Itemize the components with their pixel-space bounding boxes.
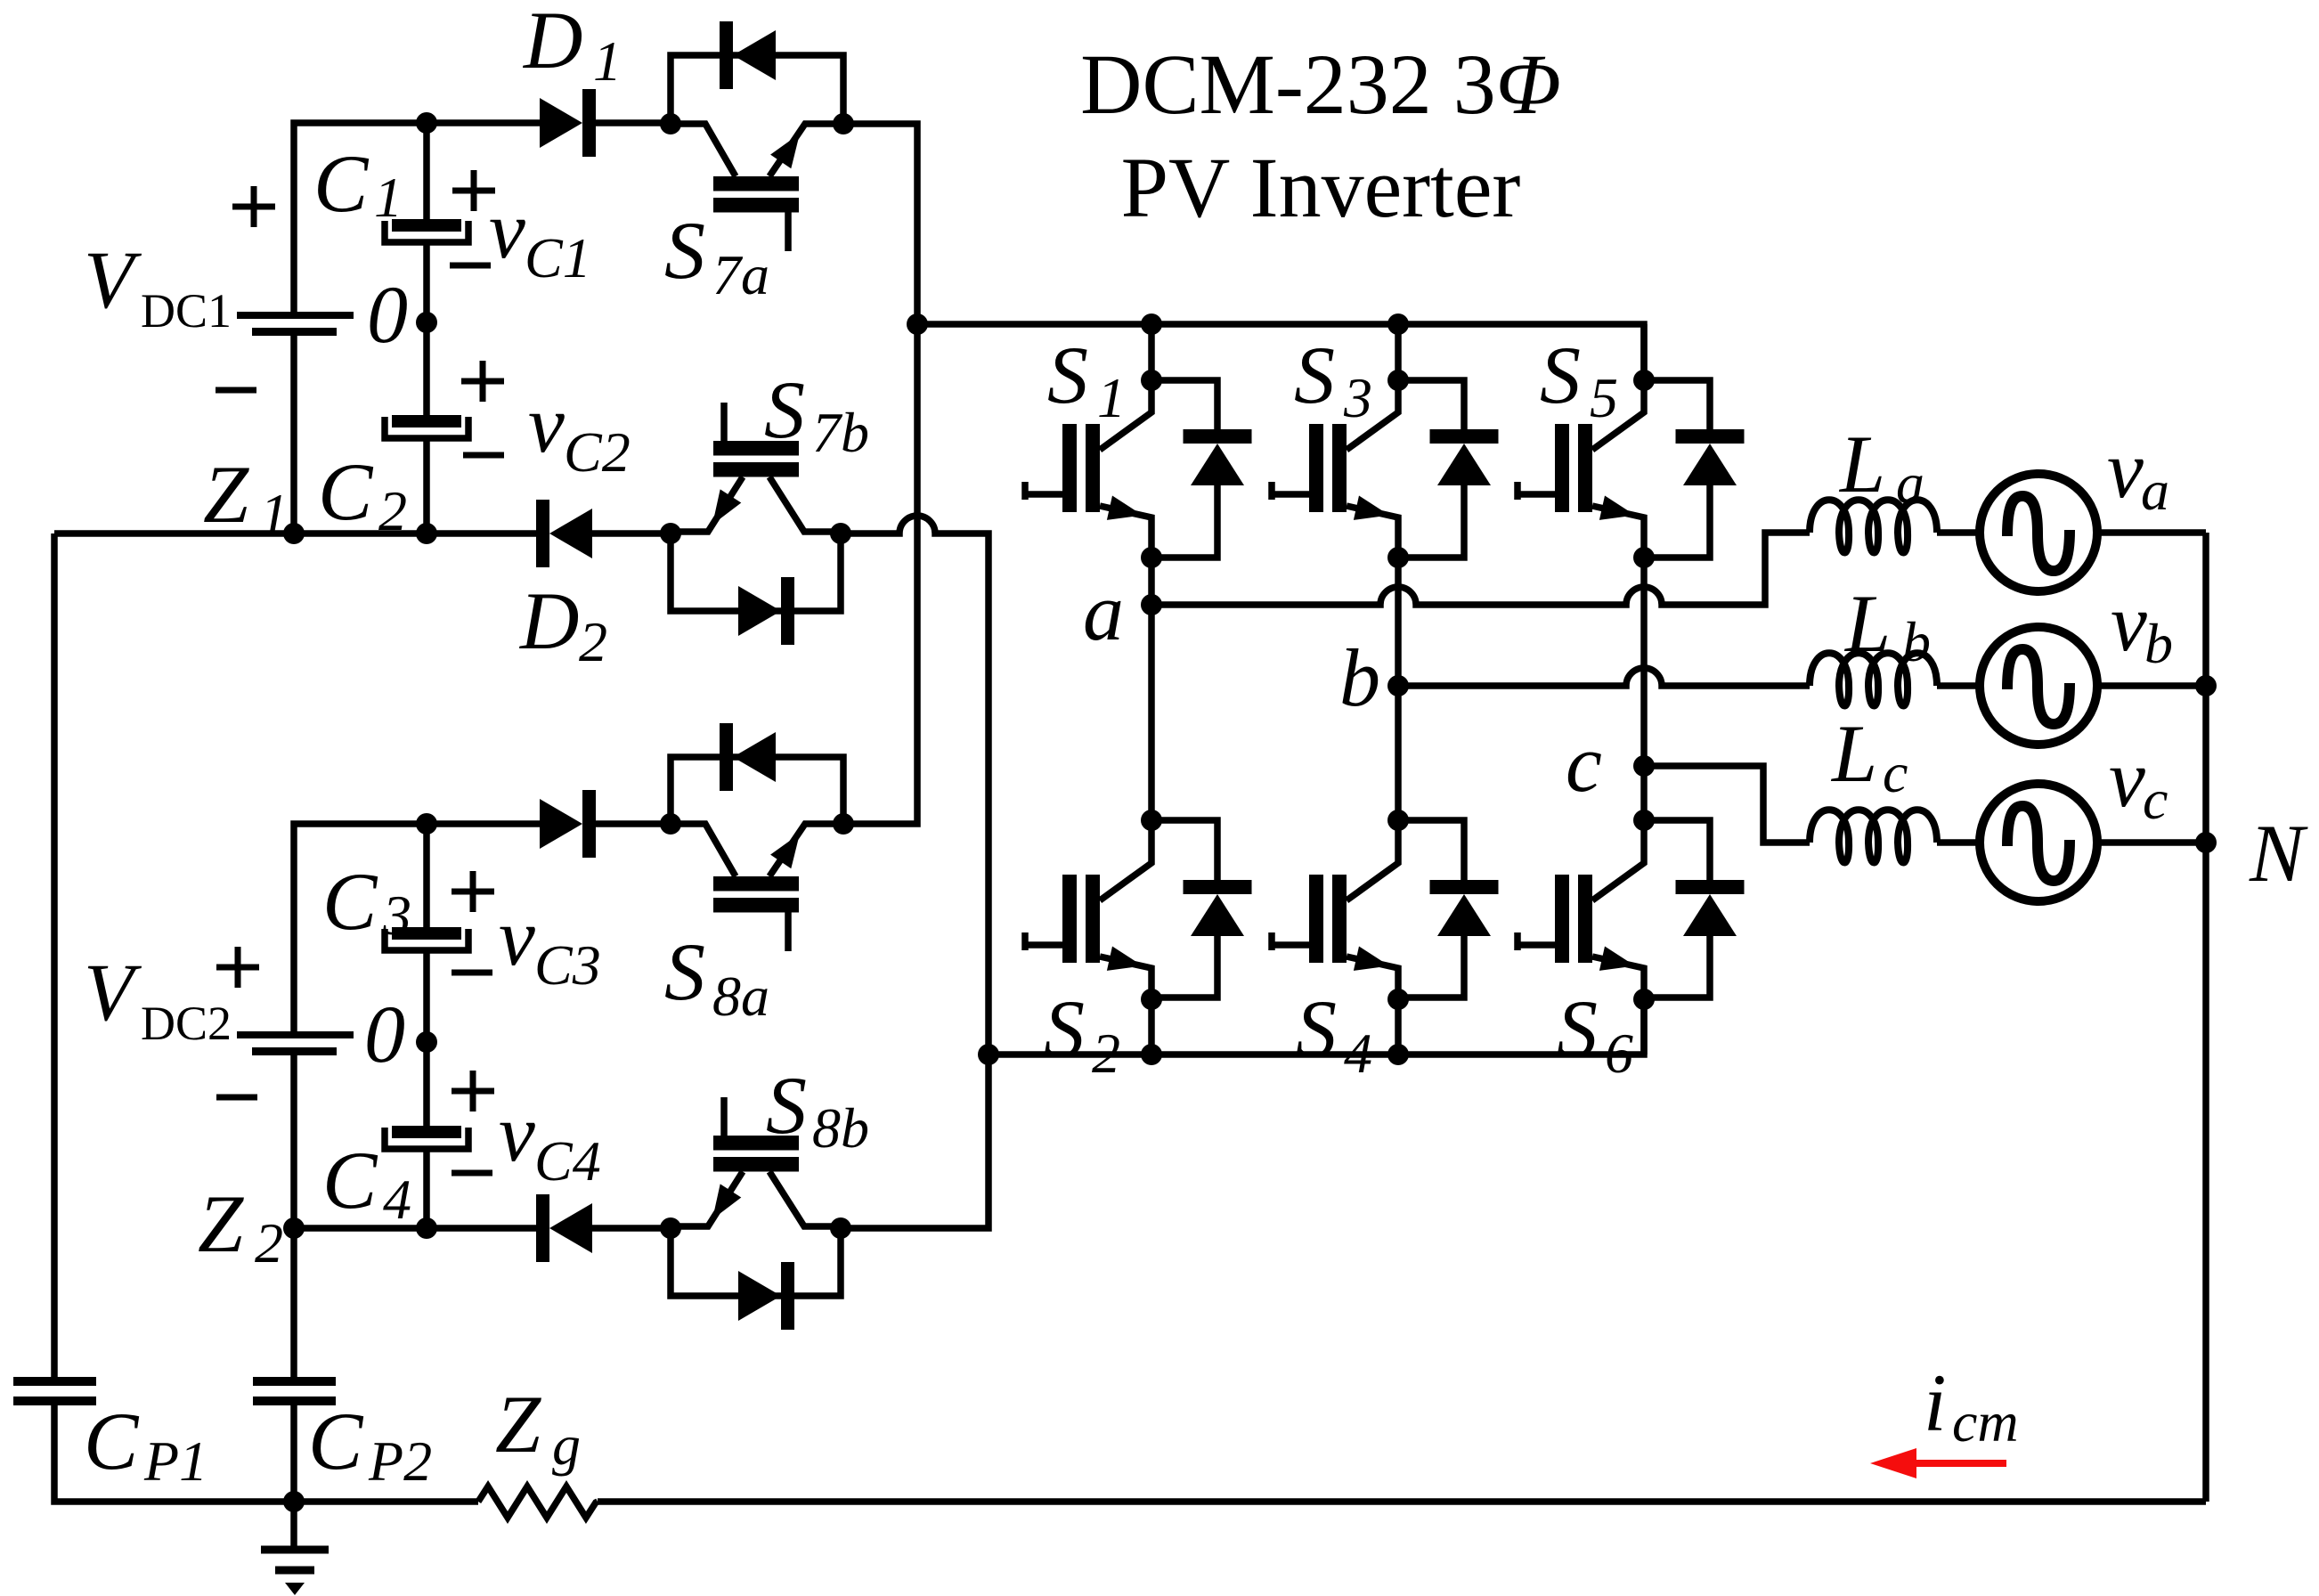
- igbt S3 gate bars: [1309, 424, 1323, 512]
- igbt S8b collector lead: [769, 1172, 841, 1227]
- svg-text:4: 4: [1344, 1022, 1372, 1085]
- ac source vb sine symbol: [2007, 649, 2070, 724]
- svg-text:c: c: [1566, 718, 1602, 809]
- node phase a dot: [1141, 594, 1162, 615]
- wire S7a emitter to vertical bus x1030: [843, 124, 917, 824]
- ac source vc circle: [1980, 784, 2097, 901]
- igbt S3 gate lead: [1272, 491, 1309, 498]
- svg-text:v: v: [499, 1087, 535, 1178]
- igbt S5 gate bars: [1555, 424, 1569, 512]
- terminal dots of S8b: [660, 1217, 681, 1239]
- wire leg a vertical segments: [1148, 324, 1155, 1054]
- wire C4 to Z2 line: [423, 1149, 430, 1228]
- label vC2 plus sign: [461, 379, 504, 385]
- igbt S2 collector lead: [1100, 820, 1151, 900]
- free-wheel diode of S1 branch wire: [1151, 380, 1217, 429]
- igbt S4 emitter arrow: [1354, 947, 1389, 971]
- node leg b S-top dot: [1387, 370, 1409, 391]
- igbt S1 gate lead: [1025, 491, 1062, 498]
- label vC4 plus sign: [452, 1088, 494, 1095]
- svg-text:a: a: [1083, 566, 1124, 657]
- label vC1 minus sign: [450, 263, 491, 269]
- svg-text:C1: C1: [525, 226, 591, 289]
- svg-text:D: D: [522, 0, 582, 85]
- wire phase b line with hop over leg c: [1398, 668, 1810, 686]
- svg-text:S: S: [1540, 330, 1581, 420]
- svg-text:0: 0: [364, 989, 405, 1079]
- node 0 upper dot: [416, 312, 437, 333]
- igbt S7b emitter lead: [671, 477, 743, 533]
- node ground junction dot: [283, 1491, 305, 1512]
- igbt S8b gate bars: [713, 1136, 799, 1151]
- node leg b S-bottom dot: [1387, 547, 1409, 568]
- label vC3 minus sign: [452, 970, 492, 976]
- wire C3 to lower node 0: [423, 950, 430, 1126]
- free-wheel diode of S1: [1184, 429, 1252, 444]
- node C4 bottom dot: [416, 1217, 437, 1239]
- svg-text:Z: Z: [495, 1379, 541, 1470]
- wire vc to node N: [2095, 839, 2206, 846]
- wire C1 branch upper: [423, 123, 430, 219]
- svg-text:DC2: DC2: [141, 997, 232, 1050]
- node Z1 dot: [283, 523, 305, 544]
- svg-text:2: 2: [1092, 1022, 1120, 1085]
- igbt S7a collector lead: [671, 124, 736, 176]
- node vb junction dot: [2195, 675, 2217, 696]
- svg-text:L: L: [1838, 419, 1885, 509]
- igbt S1 gate bars: [1062, 424, 1077, 512]
- node leg a lower S-top dot: [1141, 810, 1162, 831]
- capacitor C1 top plate: [392, 219, 461, 232]
- capacitor C4 bottom plate bracket: [385, 1128, 468, 1149]
- igbt S7b collector lead: [769, 477, 841, 533]
- svg-text:7b: 7b: [812, 401, 869, 464]
- svg-text:1: 1: [1097, 366, 1126, 429]
- wire C2 to Z1 line: [423, 438, 430, 533]
- svg-text:S: S: [1047, 330, 1088, 420]
- terminal dots of S8a: [660, 813, 681, 835]
- svg-text:C2: C2: [564, 420, 631, 484]
- wire VDC2 to Z2: [290, 1055, 297, 1228]
- svg-text:DCM-232 3Φ: DCM-232 3Φ: [1080, 37, 1561, 132]
- anti-parallel diode of S7b: [738, 586, 781, 636]
- label vC3 plus sign: [452, 889, 494, 895]
- node leg a S-bottom dot: [1141, 547, 1162, 568]
- svg-text:v: v: [499, 892, 535, 982]
- dc source VDC1 positive plate: [237, 312, 354, 319]
- wire Z2 to CP2: [290, 1228, 297, 1377]
- svg-text:L: L: [1843, 578, 1891, 669]
- wire top bus (VDC1 corner to D1): [294, 123, 540, 315]
- svg-text:b: b: [2144, 612, 2173, 675]
- free-wheel diode of S2: [1184, 880, 1252, 894]
- node N-rail leg-a dot: [1141, 1044, 1162, 1065]
- capacitor C3 top plate: [392, 927, 461, 940]
- node C1 top junction dot: [416, 112, 437, 134]
- wire right bus vertical: [2202, 533, 2209, 1502]
- label VDC2 minus sign: [216, 1095, 257, 1101]
- igbt S7b gate lead: [720, 403, 728, 441]
- svg-text:i: i: [1924, 1357, 1947, 1448]
- label vC4 minus sign: [452, 1170, 492, 1177]
- igbt S6 emitter lead: [1592, 957, 1644, 997]
- capacitor C2 top plate: [392, 415, 461, 427]
- node leg c lower S-top dot: [1633, 810, 1655, 831]
- node leg c S-top dot: [1633, 370, 1655, 391]
- svg-text:c: c: [2143, 768, 2168, 831]
- svg-text:v: v: [2109, 733, 2145, 824]
- svg-text:Z: Z: [198, 1178, 244, 1269]
- svg-text:S: S: [766, 1060, 807, 1151]
- capacitor C2 bottom plate bracket: [385, 417, 468, 438]
- free-wheel diode of S2 branch wire: [1151, 820, 1217, 880]
- label vC1 plus sign: [452, 188, 495, 194]
- capacitor C3 bottom plate bracket: [385, 929, 468, 950]
- svg-text:8b: 8b: [812, 1096, 869, 1160]
- svg-text:Z: Z: [203, 449, 249, 540]
- node N-rail junction dot: [978, 1044, 999, 1065]
- anti-parallel diode loop of S7b: [671, 533, 841, 611]
- node 0 lower dot: [416, 1031, 437, 1053]
- label VDC1 plus sign: [232, 204, 275, 210]
- svg-text:0: 0: [367, 269, 408, 360]
- free-wheel diode of S3 branch wire: [1398, 380, 1464, 429]
- svg-text:2: 2: [579, 610, 607, 673]
- anti-parallel diode loop of S8b: [671, 1228, 841, 1296]
- wire D3 cathode to S8a: [596, 820, 671, 827]
- node phase c dot: [1633, 755, 1655, 777]
- node leg c lower S-bottom dot: [1633, 989, 1655, 1010]
- svg-text:S: S: [1044, 983, 1085, 1074]
- svg-text:S: S: [664, 926, 705, 1017]
- node Z2 dot: [283, 1217, 305, 1239]
- svg-text:P2: P2: [368, 1429, 432, 1493]
- ac source va sine symbol: [2007, 496, 2070, 571]
- igbt S2 gate lead: [1025, 941, 1062, 949]
- svg-text:S: S: [1294, 330, 1335, 420]
- wire left outer bottom corner to ground bus: [54, 1405, 294, 1502]
- wire va to right bus corner: [2095, 529, 2206, 536]
- igbt S1 emitter arrow: [1107, 496, 1143, 520]
- wire Lc to vc: [1937, 839, 1981, 846]
- igbt S2 gate bars: [1062, 875, 1077, 963]
- inductor La: [1810, 500, 1937, 552]
- free-wheel diode of S3: [1430, 429, 1499, 444]
- node leg a S-top dot: [1141, 370, 1162, 391]
- wire leg c vertical segments: [1640, 324, 1648, 1054]
- diode D4: [536, 1194, 549, 1262]
- svg-text:a: a: [1896, 452, 1924, 515]
- svg-text:6: 6: [1605, 1022, 1633, 1085]
- svg-text:2: 2: [255, 1211, 283, 1274]
- node C3 top junction dot: [416, 813, 437, 835]
- diode D1: [540, 98, 582, 148]
- igbt S7a emitter arrow: [770, 134, 800, 168]
- igbt S3 emitter lead: [1347, 506, 1398, 558]
- node phase b dot: [1387, 675, 1409, 696]
- wire CP2 to ground bus: [290, 1405, 297, 1502]
- svg-text:D: D: [518, 575, 579, 666]
- igbt S4 gate bars: [1309, 875, 1323, 963]
- node C2 bottom dot: [416, 523, 437, 544]
- node leg b lower S-top dot: [1387, 810, 1409, 831]
- igbt S8a emitter lead: [769, 824, 843, 876]
- resistor Zg: [478, 1486, 598, 1518]
- svg-text:1: 1: [593, 29, 622, 93]
- svg-text:S: S: [1557, 983, 1598, 1074]
- igbt S7b gate bars: [713, 441, 799, 456]
- svg-text:N: N: [2249, 808, 2308, 899]
- svg-text:v: v: [2111, 577, 2147, 668]
- igbt S7a gate bars: [713, 176, 799, 191]
- igbt S1 emitter lead: [1100, 506, 1151, 558]
- wire Z1 line: [54, 530, 671, 537]
- svg-text:v: v: [528, 379, 565, 469]
- svg-text:7a: 7a: [712, 243, 769, 306]
- label VDC1 minus sign: [216, 387, 256, 394]
- capacitor CP1 plates: [13, 1377, 96, 1386]
- igbt S8b emitter lead: [671, 1172, 743, 1227]
- capacitor C4 top plate: [392, 1126, 461, 1138]
- wire S7b output with hop over x1030 going to x1110 vertical: [841, 516, 989, 1228]
- igbt S8b gate lead: [720, 1097, 728, 1136]
- svg-text:v: v: [489, 184, 525, 275]
- free-wheel diode of S4: [1430, 880, 1499, 894]
- wire left outer vertical (Z1 to CP1): [51, 533, 58, 1377]
- node leg a lower S-bottom dot: [1141, 989, 1162, 1010]
- svg-text:L: L: [1830, 708, 1877, 799]
- wire Z2 line: [294, 1225, 671, 1232]
- svg-text:cm: cm: [1952, 1390, 2019, 1453]
- igbt S8a gate bars: [713, 876, 799, 892]
- svg-text:C: C: [308, 1396, 364, 1486]
- wire P-rail of bridge: [917, 324, 1644, 380]
- free-wheel diode of S5 branch wire: [1644, 380, 1710, 429]
- wire C1 to node 0: [423, 242, 430, 415]
- ac source vc sine symbol: [2007, 806, 2070, 881]
- wire lower top bus (VDC2 corner to D3): [294, 824, 540, 1033]
- terminal dots of S7b: [660, 523, 681, 544]
- svg-text:1: 1: [374, 166, 403, 229]
- igbt S8a emitter arrow: [770, 834, 800, 868]
- dc source VDC2 negative plate: [252, 1047, 337, 1055]
- svg-text:b: b: [1339, 632, 1380, 723]
- svg-text:5: 5: [1590, 366, 1618, 429]
- svg-text:V: V: [84, 947, 142, 1038]
- igbt S5 emitter arrow: [1599, 496, 1635, 520]
- svg-text:C: C: [322, 1135, 378, 1225]
- node P-rail leg-a dot: [1141, 313, 1162, 335]
- svg-text:P1: P1: [143, 1429, 207, 1493]
- anti-parallel diode loop of S8a: [671, 757, 843, 824]
- igbt S5 emitter lead: [1592, 506, 1644, 558]
- wire Lb to vb: [1937, 682, 1981, 689]
- dc source VDC2 positive plate: [237, 1031, 354, 1038]
- igbt S2 emitter arrow: [1107, 947, 1143, 971]
- svg-text:4: 4: [383, 1168, 411, 1231]
- igbt S8a collector lead: [671, 824, 736, 876]
- igbt S8a gate lead: [785, 912, 792, 951]
- svg-text:C: C: [322, 856, 378, 947]
- igbt S6 gate bars: [1555, 875, 1569, 963]
- igbt S6 collector lead: [1592, 820, 1644, 900]
- anti-parallel diode of S7a: [720, 21, 733, 89]
- svg-text:8a: 8a: [712, 965, 769, 1028]
- ac source va circle: [1980, 474, 2097, 591]
- igbt S7b emitter arrow: [712, 489, 741, 525]
- svg-text:C: C: [313, 138, 370, 229]
- current icm arrow: [1915, 1460, 2006, 1467]
- diode D3: [540, 799, 582, 849]
- svg-text:C: C: [84, 1396, 140, 1486]
- svg-text:c: c: [1883, 741, 1908, 804]
- svg-text:C3: C3: [534, 933, 601, 997]
- svg-text:DC1: DC1: [141, 284, 232, 338]
- wire ground bus bottom: [294, 1498, 2206, 1505]
- svg-text:S: S: [1296, 983, 1337, 1074]
- igbt S2 emitter lead: [1100, 957, 1151, 997]
- free-wheel diode of S5: [1676, 429, 1745, 444]
- inductor Lc: [1810, 810, 1937, 862]
- igbt S7a emitter lead: [769, 124, 843, 176]
- diode D2: [536, 500, 549, 567]
- wire D1 cathode to S7a: [596, 119, 671, 126]
- free-wheel diode of S4 branch wire: [1398, 820, 1464, 880]
- igbt S3 emitter arrow: [1354, 496, 1389, 520]
- svg-text:C4: C4: [534, 1129, 601, 1193]
- ground symbol: [290, 1502, 297, 1550]
- wire vb to right bus: [2095, 682, 2206, 689]
- wire VDC1 to Z1: [290, 336, 297, 533]
- svg-text:3: 3: [1343, 366, 1372, 429]
- igbt S4 collector lead: [1347, 820, 1398, 900]
- svg-text:v: v: [2107, 424, 2144, 515]
- wire phase a line with hops over legs b and c: [1151, 533, 1810, 605]
- ac source vb circle: [1980, 627, 2097, 745]
- dc source VDC1 negative plate: [252, 328, 337, 336]
- capacitor C1 bottom plate bracket: [385, 221, 468, 242]
- igbt S4 gate lead: [1272, 941, 1309, 949]
- wire leg b vertical segments: [1395, 324, 1402, 1054]
- igbt S7a gate lead: [785, 212, 792, 251]
- anti-parallel diode loop of S7a: [671, 55, 843, 124]
- svg-text:1: 1: [260, 482, 289, 545]
- wire N-rail of bridge: [989, 999, 1644, 1054]
- svg-text:a: a: [2141, 459, 2169, 522]
- wire La to va: [1937, 529, 1981, 536]
- node P-rail junction dot: [907, 313, 928, 335]
- node P-rail leg-b dot: [1387, 313, 1409, 335]
- capacitor CP2 plates: [253, 1377, 336, 1386]
- wire C3 branch upper: [423, 824, 430, 927]
- svg-text:V: V: [84, 234, 142, 325]
- node N dot: [2195, 832, 2217, 853]
- inductor Lb: [1810, 653, 1937, 705]
- terminal dots of S7a: [660, 113, 681, 134]
- svg-text:g: g: [552, 1413, 581, 1477]
- wire phase c line: [1644, 766, 1810, 843]
- node N-rail leg-b dot: [1387, 1044, 1409, 1065]
- free-wheel diode of S6 branch wire: [1644, 820, 1710, 880]
- igbt S8b emitter arrow: [712, 1184, 741, 1219]
- svg-text:PV Inverter: PV Inverter: [1121, 140, 1521, 235]
- igbt S1 collector lead: [1100, 380, 1151, 450]
- igbt S5 collector lead: [1592, 380, 1644, 450]
- anti-parallel diode of S8b: [738, 1271, 781, 1321]
- free-wheel diode of S6: [1676, 880, 1745, 894]
- svg-text:3: 3: [382, 883, 411, 947]
- label vC2 minus sign: [463, 452, 504, 459]
- igbt S4 emitter lead: [1347, 957, 1398, 997]
- igbt S6 emitter arrow: [1599, 947, 1635, 971]
- igbt S3 collector lead: [1347, 380, 1398, 450]
- svg-text:b: b: [1902, 610, 1931, 673]
- igbt S6 gate lead: [1518, 941, 1555, 949]
- svg-text:C: C: [318, 446, 374, 537]
- label VDC2 plus sign: [216, 965, 259, 971]
- node leg c S-bottom dot: [1633, 547, 1655, 568]
- node leg b lower S-bottom dot: [1387, 989, 1409, 1010]
- anti-parallel diode of S8a: [720, 723, 733, 791]
- svg-text:S: S: [664, 205, 705, 296]
- igbt S5 gate lead: [1518, 491, 1555, 498]
- svg-text:S: S: [764, 364, 805, 455]
